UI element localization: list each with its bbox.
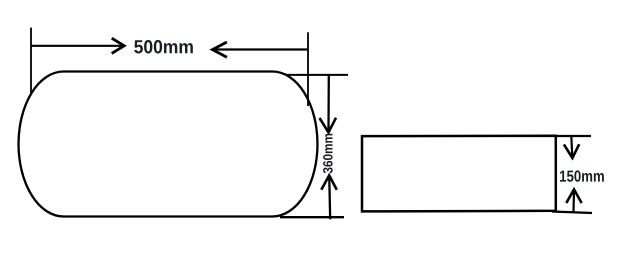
arrowhead up-pointing (360mm) — [321, 175, 337, 189]
dimension line lower segment (150mm) — [572, 189, 575, 211]
label 150mm — [560, 170, 604, 181]
extension line left (500mm) — [30, 28, 32, 94]
extension line right (500mm) — [307, 32, 309, 106]
extension line bottom (360mm) — [280, 216, 344, 218]
arrowhead down-pointing (360mm) — [320, 118, 337, 133]
extension line top (150mm) — [554, 135, 591, 137]
extension line top (360mm) — [286, 74, 348, 76]
arrowhead right-pointing (500mm) — [112, 38, 125, 53]
dimension line left segment (500mm) — [31, 45, 122, 47]
dimension line upper segment (360mm) — [327, 75, 330, 131]
label 500mm — [134, 40, 193, 53]
stadium-shaped plate outline (left part) — [19, 72, 318, 217]
dimension line lower segment (360mm) — [329, 175, 330, 219]
dimension line right segment (500mm) — [215, 48, 309, 50]
arrowhead left-pointing (500mm) — [212, 42, 227, 57]
arrowhead down-pointing (150mm) — [564, 144, 579, 158]
arrowhead up-pointing (150mm) — [566, 189, 581, 203]
rectangular plate outline (right part) — [362, 136, 556, 212]
extension line bottom (150mm) — [552, 212, 592, 214]
label 360mm (rotated 90 CCW) — [323, 134, 333, 173]
dimension line upper segment (150mm) — [571, 136, 572, 157]
